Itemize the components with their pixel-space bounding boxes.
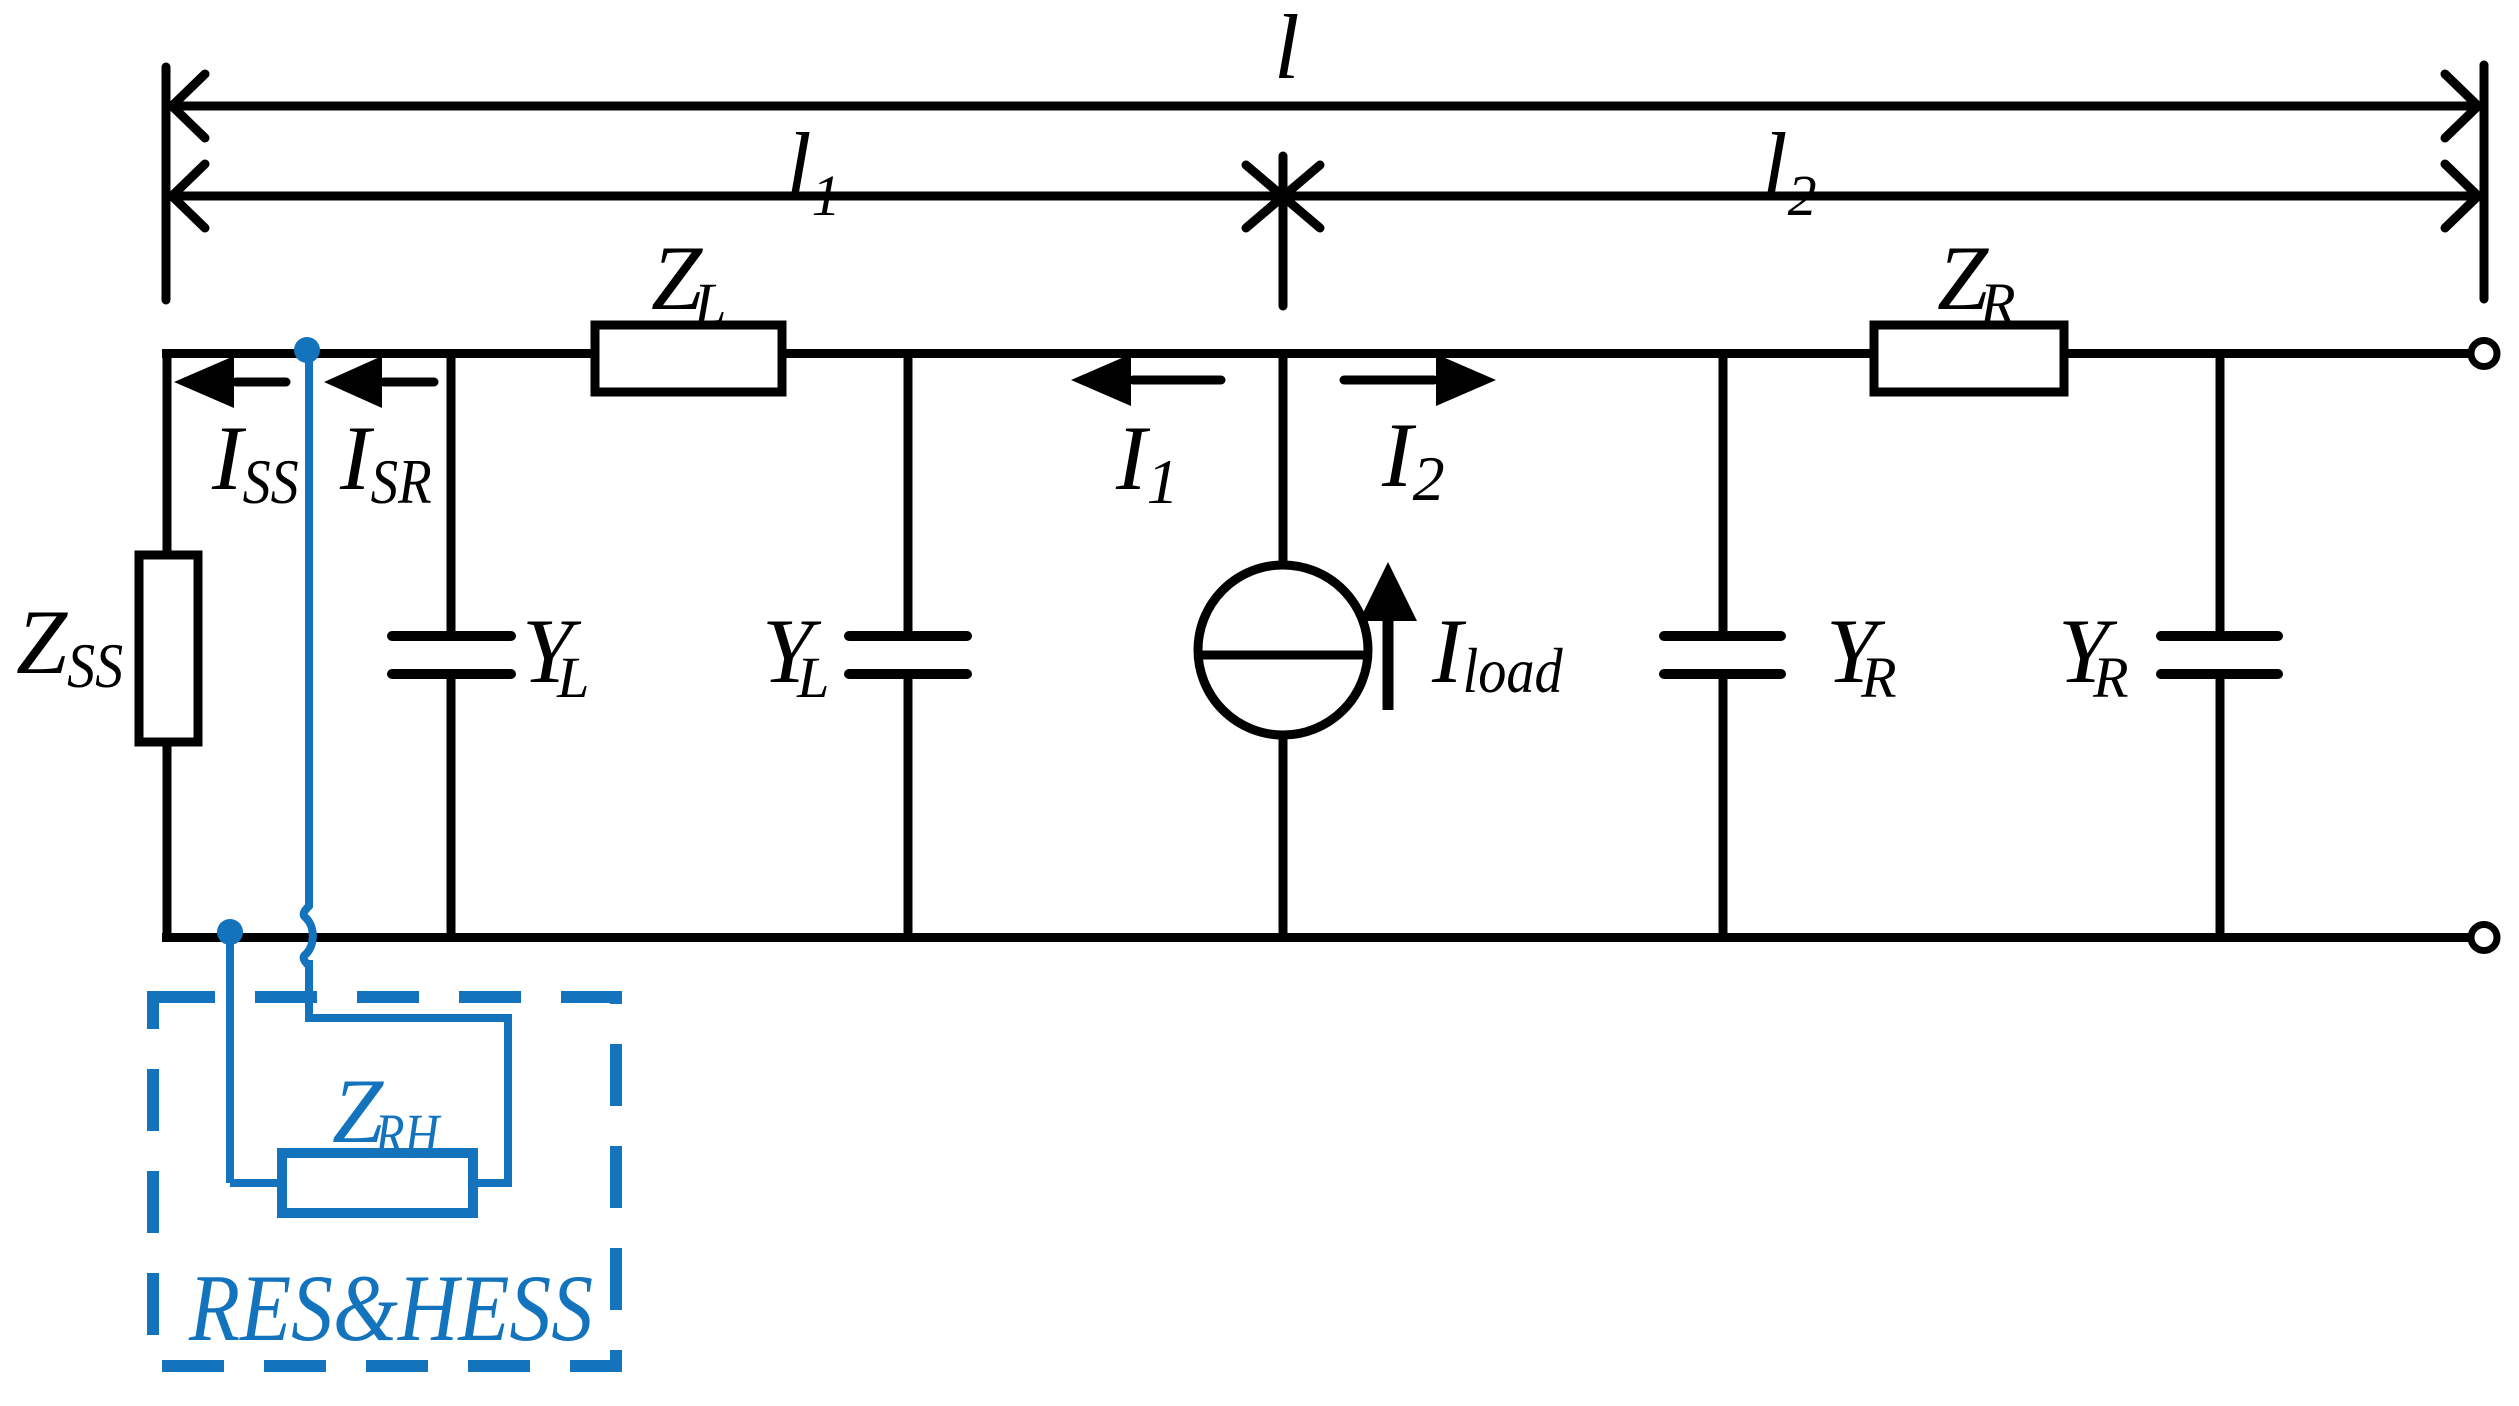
svg-text:l: l (1274, 0, 1300, 98)
svg-text:RES&HESS: RES&HESS (188, 1255, 593, 1361)
